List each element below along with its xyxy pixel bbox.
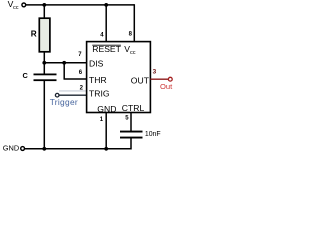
svg-text:DIS: DIS bbox=[89, 58, 104, 68]
capacitor C top plate bbox=[34, 74, 57, 76]
out terminal bbox=[168, 77, 172, 81]
wire DIS horizontal bbox=[44, 62, 86, 64]
svg-text:cc: cc bbox=[130, 50, 136, 56]
svg-text:cc: cc bbox=[13, 5, 19, 11]
svg-text:GND: GND bbox=[97, 104, 116, 114]
svg-text:C: C bbox=[23, 71, 29, 80]
svg-text:3: 3 bbox=[153, 69, 157, 76]
node junction pin4 bbox=[104, 3, 108, 7]
wire pin4 drop bbox=[105, 5, 107, 42]
RESET overline bbox=[92, 44, 121, 46]
wire resistor top lead bbox=[43, 5, 45, 18]
wire OUT (red) bbox=[150, 78, 168, 80]
wire pin8 drop bbox=[133, 4, 135, 41]
svg-text:GND: GND bbox=[3, 143, 19, 152]
capacitor C bottom plate bbox=[34, 79, 57, 81]
wire top rail bbox=[26, 4, 135, 6]
wire C2 bottom to rail bbox=[25, 138, 132, 149]
svg-text:OUT: OUT bbox=[131, 75, 150, 85]
svg-text:TRIG: TRIG bbox=[89, 89, 110, 99]
wire THR horizontal bbox=[64, 78, 87, 80]
wire THR drop bbox=[63, 63, 65, 79]
wire resistor bottom lead bbox=[43, 52, 45, 74]
svg-text:Out: Out bbox=[160, 82, 173, 91]
svg-text:10nF: 10nF bbox=[145, 131, 161, 138]
op-amp U1 555 body bbox=[87, 42, 151, 113]
svg-text:THR: THR bbox=[89, 75, 107, 85]
svg-text:RESET: RESET bbox=[92, 44, 121, 54]
wire pin5 drop bbox=[130, 113, 132, 132]
wire capacitor to ground rail bbox=[43, 81, 45, 149]
GND terminal bbox=[21, 147, 25, 151]
capacitor C2 bottom plate bbox=[120, 137, 143, 139]
resistor R bbox=[39, 18, 50, 52]
node junction C on rail bbox=[42, 147, 46, 151]
node junction top of resistor bbox=[42, 3, 46, 7]
trigger terminal bbox=[55, 93, 59, 97]
wire pin1 drop to ground bbox=[105, 113, 107, 149]
node junction THR branch bbox=[62, 61, 66, 65]
svg-text:Trigger: Trigger bbox=[50, 97, 78, 107]
node junction pin1 on rail bbox=[104, 147, 108, 151]
svg-text:R: R bbox=[31, 30, 37, 39]
node junction R/C bbox=[42, 61, 46, 65]
wire pin2 leg (light) bbox=[59, 90, 87, 92]
Vcc terminal bbox=[22, 3, 26, 7]
svg-text:CTRL: CTRL bbox=[122, 103, 145, 113]
capacitor C2 top plate bbox=[120, 131, 143, 133]
wire trigger bbox=[59, 94, 87, 96]
